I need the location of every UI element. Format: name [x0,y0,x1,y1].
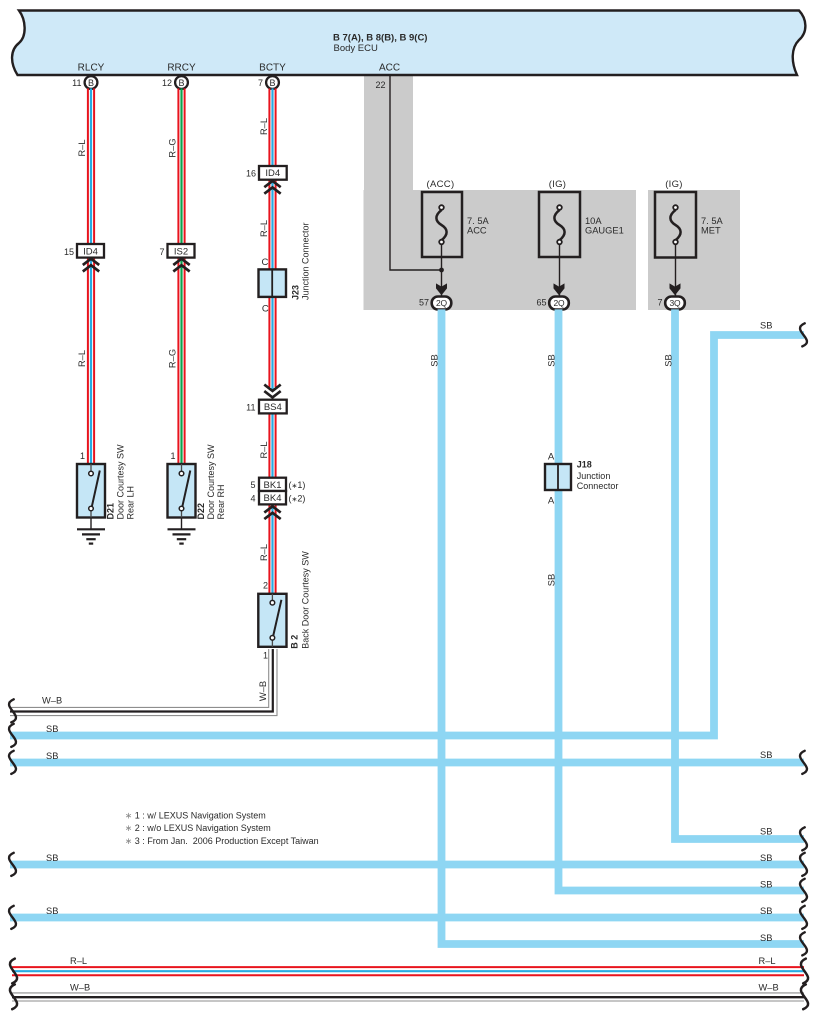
svg-text:1: 1 [80,451,85,461]
svg-text:SB: SB [760,827,772,837]
fuse 7.5A ACC [422,192,462,257]
svg-text:2Q: 2Q [436,298,448,308]
svg-text:R–L: R–L [70,956,87,966]
svg-text:3Q: 3Q [670,298,682,308]
svg-text:Door Courtesy SW: Door Courtesy SW [206,444,216,520]
svg-text:SB: SB [547,574,557,586]
svg-text:SB: SB [760,853,772,863]
connector 16 ID4 [246,166,287,180]
svg-text:J18: J18 [577,460,592,470]
break squiggle left SB row6 [9,906,16,929]
connector 4 BK4 (*2) [250,491,305,504]
junction connector J23 [259,269,287,297]
fuse 10A GAUGE1 [539,192,580,257]
connector oval 57 2Q [419,297,451,310]
svg-text:RLCY: RLCY [78,62,105,73]
svg-text:5: 5 [250,480,255,490]
connector 15 ID4 [64,244,104,258]
break squiggle left W-B bottom [10,984,17,1009]
connector 11 BS4 [246,400,287,414]
svg-text:BS4: BS4 [264,402,282,413]
switch B2 Back Door Courtesy SW [258,594,286,647]
wire R-L col3 seg1 [269,88,275,166]
svg-text:65: 65 [536,298,546,308]
svg-text:Back Door Courtesy SW: Back Door Courtesy SW [301,551,311,649]
svg-text:2: 2 [263,581,268,591]
svg-text:B: B [88,78,94,88]
svg-text:(∗2): (∗2) [289,494,306,504]
svg-text:SB: SB [760,321,772,331]
chevron up below BK4 [264,506,280,519]
svg-text:C: C [261,257,268,268]
break squiggle right R-L [801,959,808,984]
switch D21 Door Courtesy SW Rear LH [77,464,105,518]
svg-text:SB: SB [46,853,58,863]
svg-text:BK1: BK1 [264,480,282,491]
svg-text:7. 5A: 7. 5A [467,216,490,226]
svg-text:R–L: R–L [77,139,87,156]
break squiggle right SB row2 [800,751,807,774]
svg-text:57: 57 [419,298,429,308]
break squiggle right SB top [800,323,807,346]
arrow into 3Q (7) [670,283,681,295]
break squiggle left SB row2 [9,751,16,774]
svg-text:15: 15 [64,247,74,257]
pin 11 circle B [72,76,97,89]
svg-text:J23: J23 [291,285,301,300]
wire SB vertical D with top branch and row1 [10,335,804,736]
svg-text:R–L: R–L [259,544,269,561]
svg-text:Door Courtesy SW: Door Courtesy SW [116,444,126,520]
wire ACC pin22 feed [390,75,442,270]
chevron down above BS4 [264,385,280,398]
svg-text:D21: D21 [106,503,116,520]
wire R-L col3 seg5 [269,504,275,593]
svg-text:(ACC): (ACC) [427,179,455,190]
svg-text:16: 16 [246,169,256,179]
connector 7 IS2 [159,244,194,258]
svg-text:ACC: ACC [467,226,487,236]
wire SB vertical C from 3Q(7) to row3 [675,309,804,839]
switch D22 Door Courtesy SW Rear RH [168,464,196,518]
svg-text:B 2: B 2 [290,635,300,649]
svg-text:RRCY: RRCY [167,62,196,73]
svg-text:7. 5A: 7. 5A [701,216,724,226]
svg-text:Body ECU: Body ECU [334,43,378,54]
wire SB vertical B from 2Q(65) to row5 [559,309,805,890]
wire W-B bottom trunk [12,993,804,1001]
svg-text:A: A [548,495,555,506]
wire SB row4 [10,861,804,869]
svg-text:R–G: R–G [168,349,178,368]
svg-text:IS2: IS2 [174,246,188,257]
svg-text:SB: SB [46,906,58,916]
svg-text:B: B [269,78,275,88]
connector 5 BK1 (*1) [250,478,305,491]
svg-text:7: 7 [657,298,662,308]
break squiggle right SB row6 [800,906,807,929]
wire R-L column1 upper segment [88,88,94,244]
svg-text:W–B: W–B [258,681,268,701]
svg-text:R–L: R–L [259,441,269,458]
svg-text:BCTY: BCTY [259,62,286,73]
svg-text:SB: SB [46,724,58,734]
svg-text:(IG): (IG) [665,179,683,190]
break squiggle left W-B joint [9,699,16,722]
gray strip ACC pin22 [364,75,413,191]
wire R-L col3 seg2 [269,180,275,270]
wire R-G column2 lower segment [178,258,184,465]
svg-text:Junction Connector: Junction Connector [301,222,311,300]
svg-text:11: 11 [72,78,81,88]
junction connector J18 [545,464,571,490]
ECU banner B 7(A), B 8(B), B 9(C) Body ECU [12,11,805,76]
wire fuse MET output [675,244,677,296]
break squiggle left R-L [10,959,17,984]
break squiggle right SB row5 [800,879,807,902]
wire fuse ACC output [441,244,443,296]
svg-text:R–L: R–L [759,956,776,966]
svg-text:A: A [548,451,555,462]
wire SB row2 [10,759,804,767]
svg-text:SB: SB [46,751,58,761]
gray block fuses ACC GAUGE1 [364,190,637,310]
svg-text:GAUGE1: GAUGE1 [585,226,624,236]
svg-text:ID4: ID4 [265,168,280,179]
break squiggle right SB row3 [800,827,807,850]
junction dot ACC [439,268,444,273]
svg-text:R–L: R–L [77,350,87,367]
svg-text:10A: 10A [585,216,602,226]
svg-text:W–B: W–B [759,983,779,993]
break squiggle right SB row4 [800,853,807,876]
wire fuse GAUGE1 output [559,244,561,296]
svg-text:Rear RH: Rear RH [216,484,226,519]
svg-text:∗ 3 : From Jan. 2006 Producti: ∗ 3 : From Jan. 2006 Production Except T… [125,836,319,846]
svg-text:R–G: R–G [168,138,178,157]
svg-text:2Q: 2Q [554,298,566,308]
ground D21 [77,518,105,544]
wire R-L column1 lower segment [88,258,94,465]
arrow into 2Q (57) [436,283,447,295]
wire R-G column2 upper segment [178,88,184,244]
svg-text:7: 7 [159,247,164,257]
wire R-L bottom trunk [12,967,804,975]
svg-text:SB: SB [760,879,772,889]
svg-text:MET: MET [701,226,721,236]
break squiggle left SB row4 [9,853,16,876]
svg-text:R–L: R–L [259,118,269,135]
svg-text:22: 22 [376,80,386,90]
arrow into 2Q (65) [554,283,565,295]
chevron up below ID4 col3 [264,181,280,194]
ground D22 [168,518,196,544]
gray block fuse MET [648,190,740,310]
svg-text:ACC: ACC [379,62,400,73]
pin 7 circle B [258,76,279,89]
svg-text:ID4: ID4 [83,246,98,257]
break squiggle right SB row7 [800,932,807,955]
wire SB row6 [10,914,804,922]
fuse 7.5A MET [655,192,696,258]
svg-text:7: 7 [258,78,263,88]
wire R-L col3 seg4 [269,413,275,477]
connector oval 65 2Q [536,297,568,310]
break squiggle left SB row1 [9,724,16,747]
svg-text:R–L: R–L [259,220,269,237]
chevron up below IS2 col2 [173,259,189,272]
svg-text:B 7(A), B 8(B), B 9(C): B 7(A), B 8(B), B 9(C) [333,33,427,44]
svg-text:W–B: W–B [42,696,62,706]
svg-text:1: 1 [170,451,175,461]
svg-text:Junction: Junction [577,471,611,481]
svg-text:1: 1 [263,651,268,661]
svg-text:SB: SB [664,354,674,366]
svg-text:(∗1): (∗1) [289,480,306,490]
svg-text:SB: SB [760,750,772,760]
svg-text:4: 4 [250,494,255,504]
svg-text:(IG): (IG) [549,179,567,190]
svg-text:Connector: Connector [577,481,619,491]
chevron up below ID4 col1 [83,259,99,272]
svg-text:C: C [262,304,269,315]
svg-text:Rear LH: Rear LH [126,486,136,520]
svg-text:∗ 2 : w/o LEXUS Navigation Sys: ∗ 2 : w/o LEXUS Navigation System [125,823,271,833]
svg-text:SB: SB [430,354,440,366]
svg-text:D22: D22 [196,503,206,520]
wire W-B from B2 to left edge [10,649,277,716]
break squiggle right W-B bottom [801,984,808,1009]
svg-text:B: B [178,78,184,88]
svg-text:SB: SB [547,354,557,366]
pin 12 circle B [162,76,188,89]
connector oval 7 3Q [657,297,684,310]
wire SB vertical A from 2Q(57) to bottom row7 [442,309,805,944]
svg-text:W–B: W–B [70,983,90,993]
svg-text:SB: SB [760,906,772,916]
svg-text:∗ 1 : w/ LEXUS Navigation Syst: ∗ 1 : w/ LEXUS Navigation System [125,811,266,821]
svg-text:BK4: BK4 [264,493,282,504]
svg-text:SB: SB [760,933,772,943]
svg-text:12: 12 [162,78,172,88]
wire R-L col3 seg3 [269,297,275,391]
svg-text:11: 11 [246,403,255,413]
